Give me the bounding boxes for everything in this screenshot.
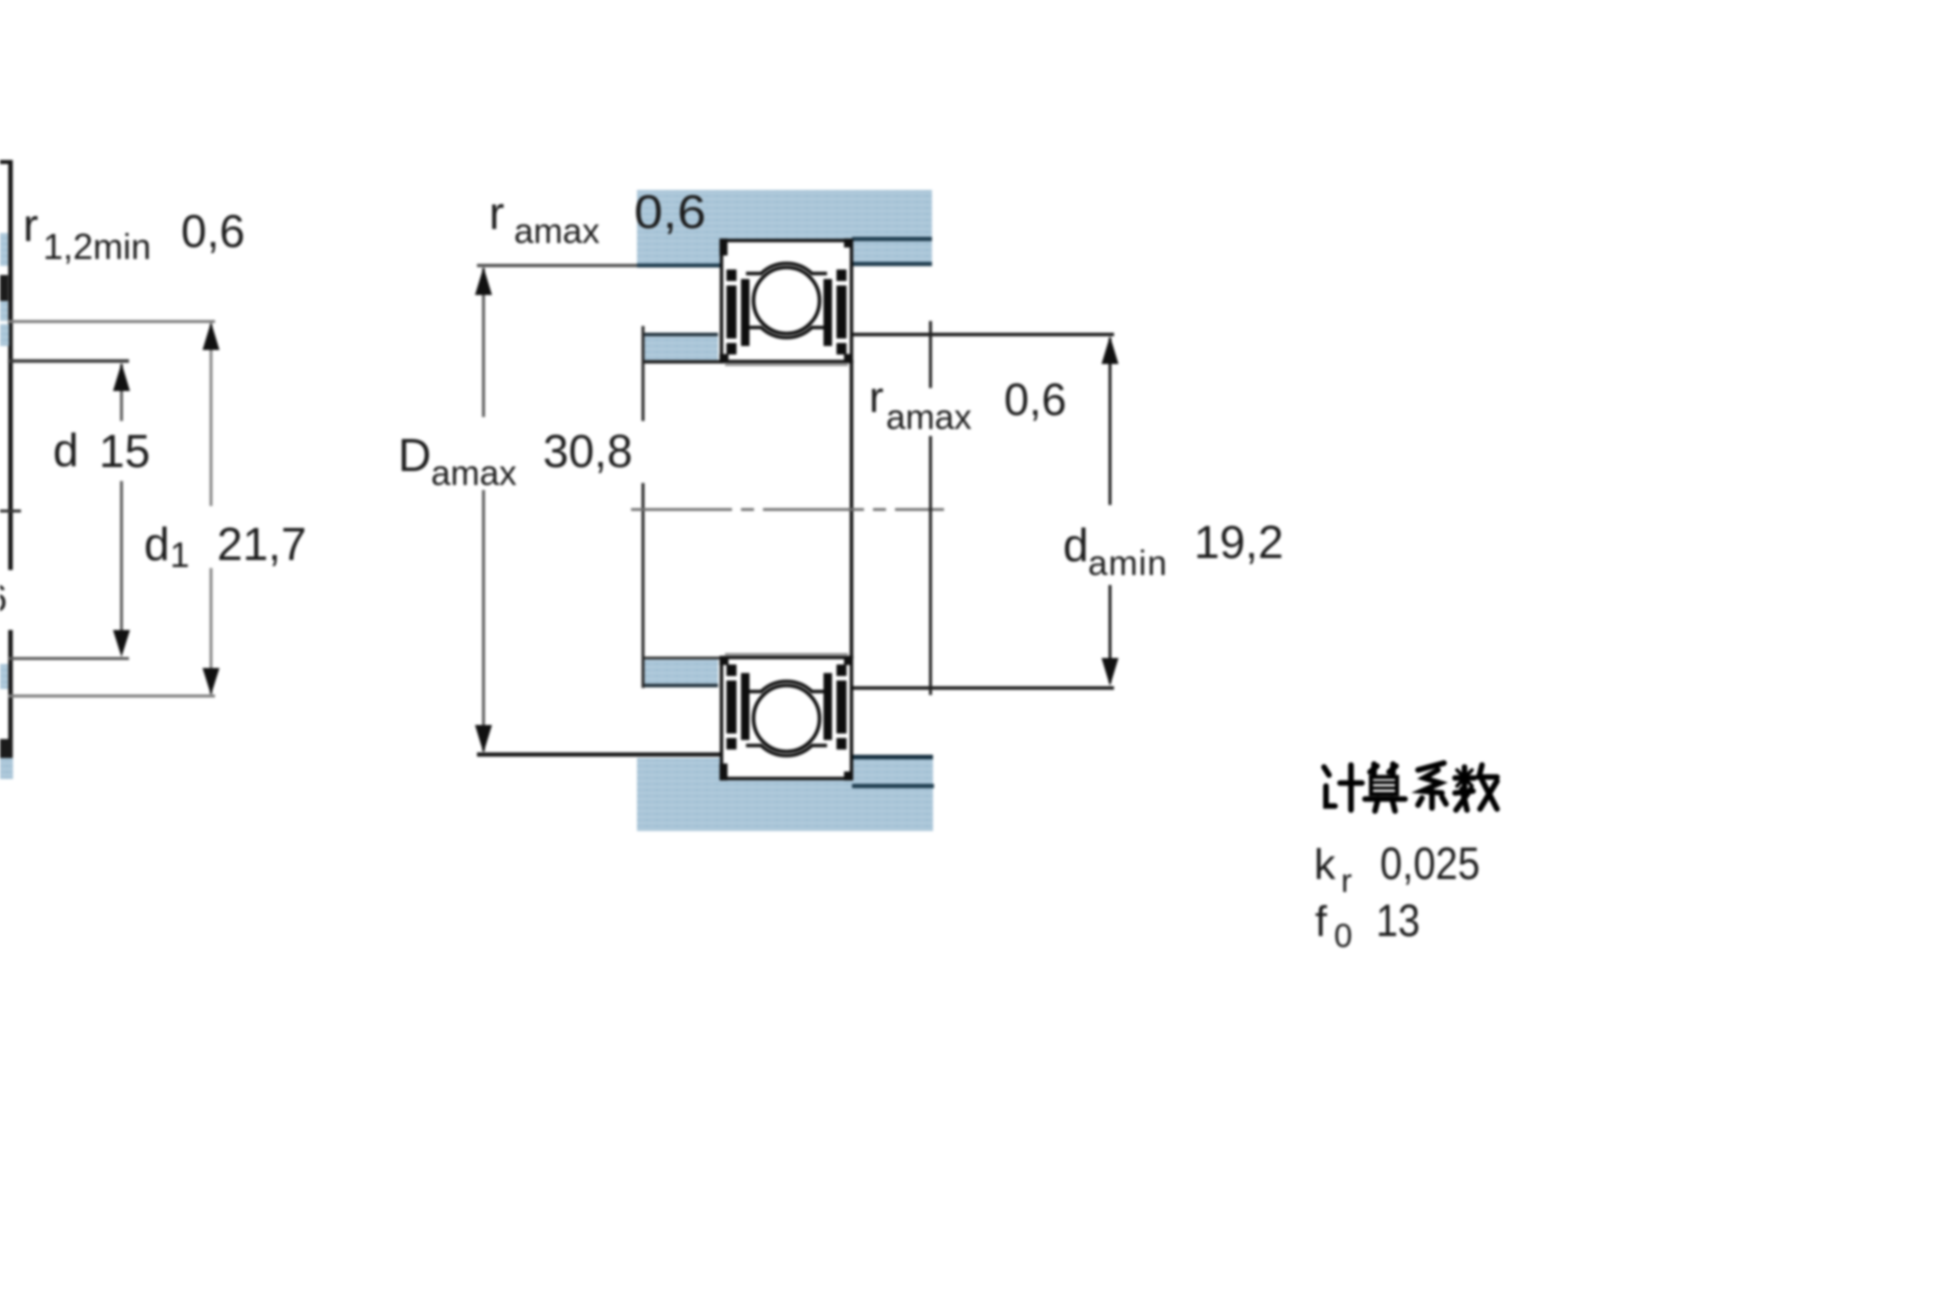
svg-text:0,6: 0,6	[634, 185, 706, 238]
svg-text:r: r	[489, 187, 504, 239]
dimension d1 : up arrowhead	[203, 322, 220, 350]
dimension d1 : bottom extension line	[8, 695, 215, 698]
centerline (axis) dash-dot	[631, 508, 944, 511]
r_a leader line (right, vertical)	[929, 321, 932, 388]
svg-text:30,8: 30,8	[543, 425, 633, 477]
svg-text:1,2min: 1,2min	[43, 226, 151, 267]
svg-text:D: D	[398, 429, 431, 481]
shaft abutment line d_a bottom-right (extension to d_amin dim)	[852, 686, 1114, 689]
svg-text:0: 0	[1334, 917, 1352, 954]
dimension d : up arrowhead	[113, 363, 130, 391]
housing cut (blue) pieces on left edge	[0, 233, 8, 266]
svg-text:r: r	[1341, 862, 1352, 899]
shaft abutment line d_a bottom-left	[642, 684, 718, 688]
dimension d : bottom extension line	[8, 657, 129, 660]
shaft shoulder strip bottom-left top edge	[643, 657, 720, 660]
outer box of bearing section	[722, 241, 852, 362]
svg-text:amin: amin	[1088, 544, 1168, 583]
D_amax up arrowhead	[475, 267, 492, 295]
wire: top stub of left assembly	[0, 160, 11, 164]
dimension d 15 : top extension line	[8, 359, 129, 362]
svg-text:d: d	[144, 518, 170, 570]
bearing cross-section (bottom), mirrored copy	[720, 654, 854, 780]
inner race shoulder profile	[746, 328, 827, 338]
svg-text:0,6: 0,6	[1004, 374, 1067, 425]
svg-text:21,7: 21,7	[217, 518, 307, 570]
shaft abutment line d_a top-right (extension to d_amin dim)	[852, 333, 1114, 336]
ball	[754, 268, 820, 334]
housing top band (blue)	[637, 190, 932, 266]
housing bore edge lines right of bearing (bottom)	[852, 755, 933, 759]
housing bore line bottom-left (black extension)	[477, 752, 721, 756]
svg-text:amax: amax	[431, 454, 517, 493]
svg-text:r: r	[23, 199, 38, 251]
left seal (2RS)	[727, 270, 737, 355]
dimension d : down arrowhead	[113, 630, 130, 657]
shaft right face line between bearing sections	[850, 360, 854, 659]
d_amin up arrowhead	[1102, 336, 1119, 364]
char 系	[1418, 763, 1444, 770]
left assembly right-face vertical line (upper segment)	[8, 160, 13, 570]
shaft shoulder face vertical extension line (left)	[642, 326, 645, 421]
svg-text:amax: amax	[514, 212, 600, 251]
svg-text:d: d	[1063, 519, 1089, 571]
dimension d : vertical dimension line	[120, 364, 123, 421]
D_amax down arrowhead	[475, 725, 492, 753]
dimension d1 21,7 : top extension line	[8, 320, 215, 323]
svg-text:1: 1	[170, 536, 189, 575]
heading 计算系数 (drawn strokes)	[1324, 763, 1497, 811]
dark cut blobs on left edge	[0, 275, 8, 301]
svg-text:d: d	[53, 424, 79, 476]
outer race shoulder profile	[746, 263, 827, 273]
svg-text:r: r	[869, 373, 884, 422]
housing bore line, left of bearing (gray extension part)	[477, 264, 637, 267]
svg-text:15: 15	[99, 425, 150, 477]
D_amax dimension vertical line	[482, 268, 485, 417]
shaft shoulder strip top-left bottom edge (bore line)	[643, 360, 724, 363]
dimension d1 : vertical dimension line	[210, 324, 213, 506]
corner blobs (chamfers)	[720, 239, 728, 256]
housing bore edge lines right of bearing (top)	[852, 237, 932, 241]
bearing cross-section (top), sealed deep groove ball bearing	[720, 239, 854, 365]
left assembly right-face vertical line (lower segment)	[8, 630, 13, 773]
dimension d1 : down arrowhead	[203, 668, 220, 695]
svg-text:13: 13	[1376, 895, 1420, 946]
shaft abutment line d_a top-left	[642, 333, 718, 337]
shaft shoulder strip top-left (blue)	[643, 337, 718, 361]
shaft surface gray line outside bore edge	[725, 364, 848, 366]
svg-text:0,025: 0,025	[1380, 838, 1480, 889]
svg-text:amax: amax	[886, 398, 972, 437]
svg-text:f: f	[1315, 898, 1328, 946]
housing bottom band (blue)	[637, 758, 933, 831]
char 数	[1455, 767, 1474, 789]
svg-text:6: 6	[0, 578, 7, 620]
d_amin down arrowhead	[1102, 658, 1119, 686]
shaft shoulder strip bottom-left (blue)	[643, 659, 718, 684]
char 算	[1370, 764, 1377, 774]
centerline tick of left assembly	[0, 510, 21, 513]
housing bore edge line under top band, left portion	[637, 264, 722, 268]
d_amin dimension vertical line	[1109, 338, 1112, 505]
svg-text:k: k	[1314, 841, 1336, 889]
char 计	[1324, 767, 1329, 775]
svg-text:0,6: 0,6	[181, 205, 245, 257]
svg-text:19,2: 19,2	[1194, 516, 1284, 568]
right seal (2RS)	[837, 270, 847, 355]
